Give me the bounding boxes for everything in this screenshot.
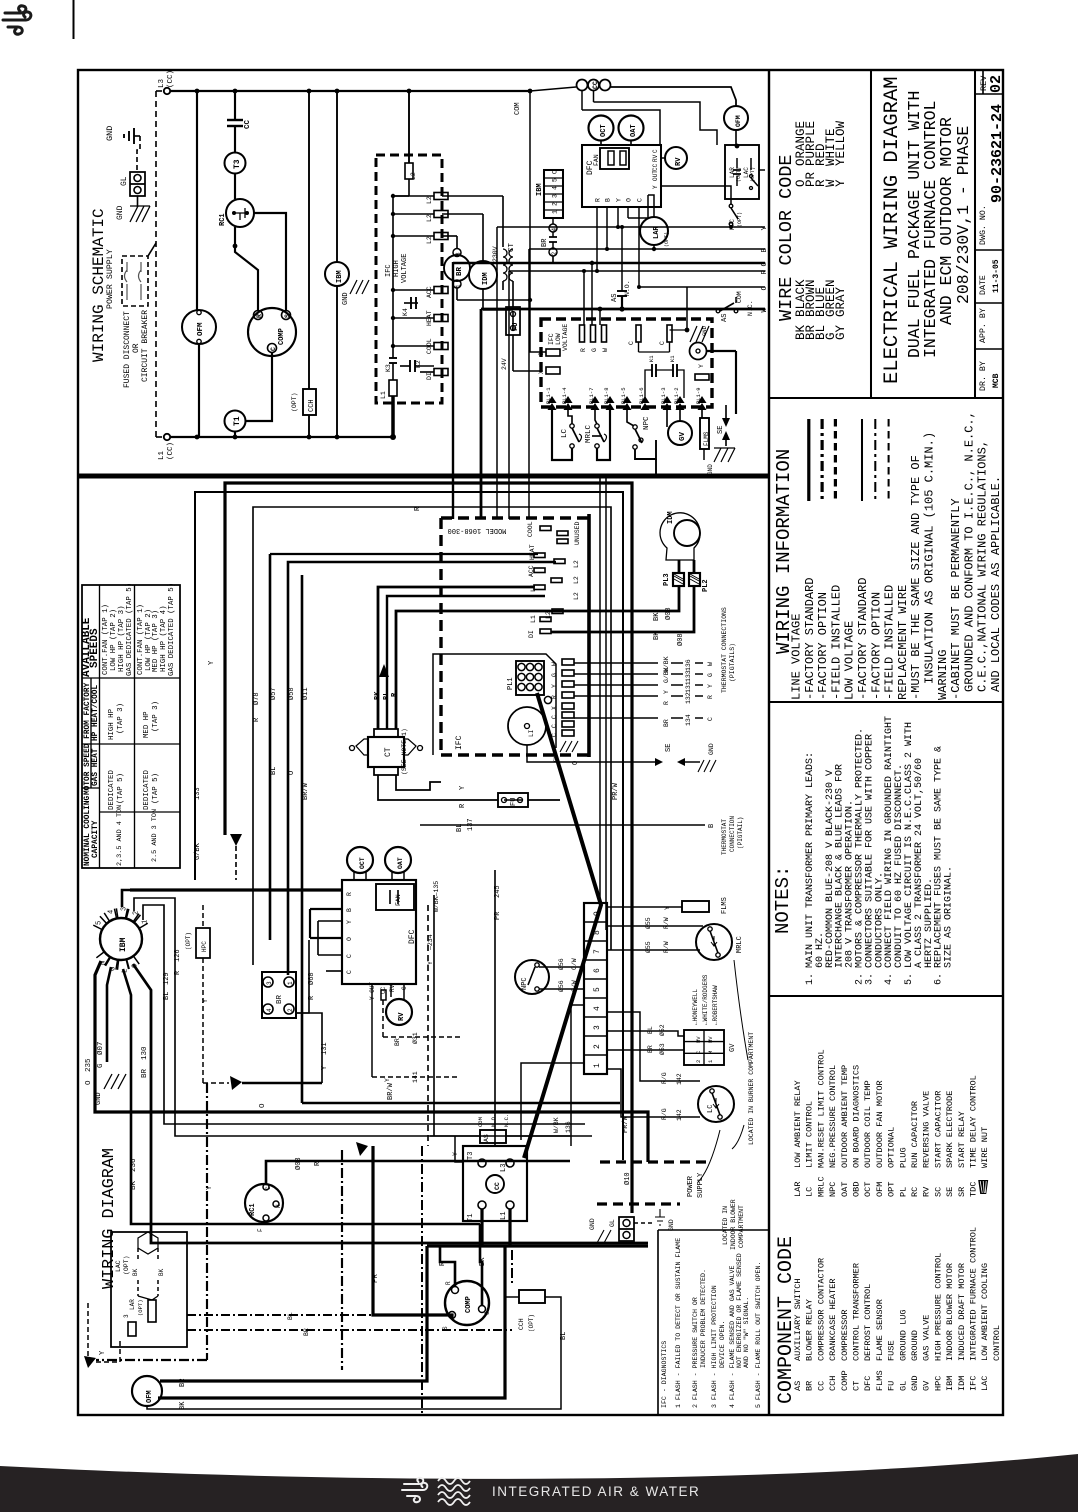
- crankcase heater CCH (diagram): [519, 1290, 545, 1303]
- wire O 058: [288, 562, 556, 975]
- IFC pin L1: [534, 585, 545, 590]
- svg-text:MCB: MCB: [992, 373, 1001, 388]
- svg-text:SPEEDS: SPEEDS: [89, 628, 101, 668]
- IFC HV pin COOL: [434, 343, 448, 350]
- svg-text:BR: BR: [276, 994, 284, 1004]
- svg-text:OFM: OFM: [875, 1182, 885, 1197]
- svg-text:INDUCER PROBLEM DETECTED.: INDUCER PROBLEM DETECTED.: [700, 1269, 707, 1368]
- svg-text:4.: 4.: [884, 973, 895, 985]
- svg-text:DEFROST CONTROL: DEFROST CONTROL: [863, 1284, 873, 1361]
- svg-text:HIGH HP (TAP 4): HIGH HP (TAP 4): [160, 605, 168, 672]
- svg-text:B: B: [761, 248, 769, 253]
- pigtail G/BK-133: [574, 673, 658, 675]
- svg-text:SPARK ELECTRODE: SPARK ELECTRODE: [945, 1091, 955, 1168]
- svg-text:Ø03: Ø03: [294, 1157, 303, 1170]
- svg-text:137: 137: [467, 818, 475, 831]
- svg-text:Ø11: Ø11: [301, 687, 310, 700]
- svg-text:DEDICATED: DEDICATED: [143, 770, 151, 810]
- wire BR/W 011: [301, 575, 304, 1103]
- dash dot low voltage field lines: [206, 1083, 208, 1360]
- wire CC to OFM2: [610, 87, 736, 106]
- svg-text:K4: K4: [402, 308, 409, 316]
- svg-text:C: C: [270, 347, 277, 351]
- svg-text:C: C: [551, 715, 558, 719]
- svg-text:235: 235: [85, 1058, 93, 1072]
- svg-text:(TAP 3): (TAP 3): [152, 701, 160, 732]
- svg-text:Ø08: Ø08: [676, 633, 685, 646]
- svg-text:OUTDOOR COIL TEMP: OUTDOOR COIL TEMP: [863, 1080, 873, 1168]
- IFC pin Y: [562, 681, 574, 687]
- svg-text:(CC): (CC): [167, 442, 175, 460]
- wire dashed gnd to GL: [137, 136, 140, 172]
- svg-text:BK: BK: [479, 1257, 487, 1266]
- svg-text:BL: BL: [560, 1332, 568, 1340]
- svg-text:Y: Y: [616, 198, 623, 202]
- svg-text:2: 2: [133, 911, 141, 915]
- svg-text:MRLC: MRLC: [816, 1176, 826, 1197]
- wire BR 053: [607, 1049, 684, 1051]
- svg-text:LOW AMBIENT COOLING: LOW AMBIENT COOLING: [980, 1263, 990, 1361]
- svg-text:LC: LC: [561, 428, 569, 438]
- svg-text:1: 1: [552, 210, 559, 214]
- svg-text:CCH: CCH: [308, 399, 316, 412]
- svg-text:BR: BR: [303, 1328, 310, 1336]
- svg-text:←ROBERTSHAW: ←ROBERTSHAW: [712, 985, 719, 1025]
- svg-text:BLOWER RELAY: BLOWER RELAY: [805, 1299, 815, 1361]
- svg-text:BK: BK: [653, 612, 661, 621]
- svg-text:CT: CT: [384, 747, 393, 757]
- svg-text:Y: Y: [761, 226, 769, 231]
- svg-text:C: C: [761, 286, 769, 291]
- svg-text:W: W: [602, 348, 609, 352]
- svg-text:C: C: [484, 1311, 491, 1315]
- svg-text:LOW VOLTAGE: LOW VOLTAGE: [843, 621, 857, 700]
- svg-text:SE: SE: [717, 426, 725, 434]
- svg-text:R: R: [346, 892, 353, 896]
- svg-text:UNUSED: UNUSED: [574, 521, 581, 545]
- wire nut: [230, 834, 242, 846]
- induced draft motor IDM (schematic): [442, 213, 483, 215]
- svg-text:SUPPLY: SUPPLY: [697, 1172, 705, 1198]
- wire R/G 142 bottom: [607, 1069, 700, 1117]
- svg-text:Y: Y: [664, 906, 671, 910]
- svg-text:C: C: [695, 1050, 702, 1054]
- IFC pin L2: [552, 609, 563, 614]
- svg-text:GV: GV: [729, 1043, 737, 1052]
- svg-text:IBM: IBM: [119, 937, 128, 952]
- wire BK 236: [123, 969, 480, 1224]
- svg-text:GL: GL: [609, 1219, 616, 1227]
- svg-text:BK: BK: [132, 1268, 139, 1276]
- footer waves icon: [438, 1478, 470, 1505]
- svg-text:2: 2: [552, 202, 559, 206]
- svg-text:O: O: [626, 198, 633, 202]
- svg-text:(TAP 5): (TAP 5): [152, 773, 160, 804]
- wire GL to chassis gnd: [137, 196, 139, 207]
- svg-text:5.: 5.: [904, 973, 915, 985]
- svg-text:5: 5: [96, 921, 104, 925]
- svg-text:C: C: [346, 970, 353, 974]
- svg-text:132: 132: [685, 692, 692, 704]
- svg-text:CAPACITY: CAPACITY: [92, 820, 100, 858]
- svg-text:DI: DI: [528, 630, 535, 638]
- pin X: [546, 367, 560, 374]
- svg-text:GL: GL: [120, 176, 129, 186]
- C riser to gnd dot: [686, 287, 688, 330]
- svg-text:1: 1: [707, 1059, 714, 1063]
- svg-text:THERMOSTAT CONNECTIONS: THERMOSTAT CONNECTIONS: [721, 607, 728, 693]
- aux switch AS (diagram): [480, 1130, 506, 1143]
- title block REV strip: [974, 70, 976, 398]
- svg-text:BK: BK: [158, 1268, 165, 1276]
- svg-text:FU: FU: [510, 798, 518, 806]
- svg-text:(OPT): (OPT): [123, 1255, 130, 1275]
- svg-text:R/G: R/G: [661, 1108, 668, 1120]
- svg-text:COMP: COMP: [465, 1296, 473, 1313]
- DFC pin drops: [596, 207, 598, 271]
- wire R 003: [266, 1161, 570, 1184]
- svg-text:WIRE NUT: WIRE NUT: [980, 1127, 990, 1168]
- svg-text:HIGH HP (TAP 3): HIGH HP (TAP 3): [118, 605, 126, 672]
- svg-text:GY: GY: [834, 324, 848, 340]
- wire G 007 gnd: [107, 967, 111, 1062]
- svg-text:Y: Y: [208, 660, 216, 665]
- svg-text:(TAP 3): (TAP 3): [117, 703, 125, 734]
- svg-text:BK: BK: [374, 691, 382, 700]
- svg-text:INDUCED DRAFT MOTOR: INDUCED DRAFT MOTOR: [957, 1263, 967, 1361]
- svg-text:Ø57: Ø57: [269, 687, 278, 700]
- inducer port circle: [508, 707, 546, 745]
- pins C C: [636, 325, 641, 342]
- svg-text:GND: GND: [708, 743, 715, 755]
- svg-text:T1: T1: [233, 416, 242, 426]
- wire PR to comp: [279, 1204, 373, 1272]
- svg-text:DI: DI: [426, 372, 433, 380]
- svg-text:RV: RV: [675, 157, 683, 166]
- svg-text:90-23621-24: 90-23621-24: [989, 104, 1006, 203]
- crankcase heater CCH: [307, 89, 312, 94]
- svg-text:236: 236: [130, 1158, 138, 1172]
- svg-text:COM: COM: [477, 1117, 484, 1127]
- wire R: [440, 1246, 455, 1287]
- wire BR 130: [133, 964, 648, 1243]
- svg-text:LINE VOLTAGE: LINE VOLTAGE: [790, 614, 804, 700]
- svg-text:FAN: FAN: [593, 154, 600, 166]
- svg-text:HIGH PRESSURE CONTROL: HIGH PRESSURE CONTROL: [933, 1253, 943, 1361]
- outdoor fan motor OFM (diagram): [132, 1376, 162, 1406]
- pigtail BR-134: [574, 717, 658, 719]
- svg-text:FLMS: FLMS: [721, 897, 729, 914]
- svg-text:BL: BL: [163, 992, 171, 1000]
- svg-text:FUSE: FUSE: [887, 1340, 897, 1361]
- IFC pin L2: [554, 559, 565, 564]
- svg-text:Ø10: Ø10: [623, 1172, 632, 1185]
- svg-text:X: X: [538, 370, 545, 374]
- svg-text:START CAPACITOR: START CAPACITOR: [933, 1091, 943, 1168]
- IBM speed tap block: [544, 170, 563, 218]
- svg-text:AS: AS: [721, 314, 729, 322]
- svg-text:MV: MV: [695, 1036, 702, 1043]
- limit control LC (diagram): [698, 1086, 734, 1122]
- svg-text:24V: 24V: [501, 358, 508, 370]
- svg-text:O/W: O/W: [571, 980, 578, 992]
- svg-text:Ø58: Ø58: [287, 687, 296, 700]
- IFC gnd: [560, 741, 578, 752]
- LV pin risers: [583, 271, 585, 325]
- terminal strip 1-9: [584, 903, 607, 1074]
- svg-text:H: H: [275, 1204, 282, 1208]
- svg-text:4: 4: [551, 228, 558, 232]
- svg-text:K1: K1: [648, 355, 655, 362]
- svg-text:GND: GND: [701, 325, 708, 336]
- svg-text:Y: Y: [459, 785, 467, 790]
- svg-text:DEVICE OPEN.: DEVICE OPEN.: [719, 1321, 726, 1368]
- svg-text:(SEE NOTE 1): (SEE NOTE 1): [401, 728, 408, 775]
- svg-text:LOW HP (TAP 2): LOW HP (TAP 2): [110, 609, 118, 671]
- svg-text:CRANKCASE HEATER: CRANKCASE HEATER: [828, 1278, 838, 1361]
- svg-text:PR: PR: [494, 911, 502, 920]
- svg-text:C: C: [552, 170, 559, 174]
- svg-text:1 FLASH - FAILED TO DETECT OR: 1 FLASH - FAILED TO DETECT OR SUSTAIN FL…: [675, 1238, 682, 1408]
- svg-text:K3: K3: [385, 364, 392, 372]
- svg-text:OFM: OFM: [146, 1390, 154, 1403]
- svg-text:126: 126: [174, 949, 182, 962]
- L2 feed from rail: [407, 89, 412, 94]
- svg-text:Y: Y: [427, 961, 434, 965]
- svg-text:W: W: [707, 662, 714, 666]
- svg-text:R: R: [551, 695, 558, 699]
- svg-text:GV: GV: [679, 431, 687, 441]
- control transformer CT (diagram): [368, 737, 404, 767]
- svg-text:COM: COM: [514, 102, 522, 115]
- svg-text:GROUND LUG: GROUND LUG: [898, 1309, 908, 1361]
- wire BR: [160, 1246, 427, 1381]
- indoor blower motor IBM (diagram): [100, 918, 142, 960]
- svg-text:R: R: [707, 695, 714, 699]
- svg-text:DWG. NO.: DWG. NO.: [979, 205, 988, 245]
- svg-text:(CC): (CC): [167, 70, 175, 88]
- svg-text:MODEL 1068-300: MODEL 1068-300: [448, 526, 507, 534]
- svg-text:CT: CT: [852, 1381, 862, 1391]
- wire Y heavy bend: [225, 483, 632, 1213]
- svg-text:3: 3: [593, 1025, 602, 1030]
- IFC pin C: [562, 721, 574, 727]
- svg-text:LAC: LAC: [115, 1260, 122, 1272]
- svg-text:SE: SE: [665, 744, 673, 752]
- svg-text:LC: LC: [805, 1187, 815, 1197]
- svg-text:BL: BL: [383, 692, 391, 700]
- svg-text:L1: L1: [530, 584, 537, 592]
- svg-text:LOCATED IN BURNER COMPARTMENT: LOCATED IN BURNER COMPARTMENT: [748, 1032, 755, 1145]
- svg-text:G: G: [761, 262, 769, 267]
- compressor contactor CC (diagram): [463, 1146, 527, 1221]
- svg-text:R/W: R/W: [663, 917, 670, 929]
- svg-text:Ø55: Ø55: [644, 941, 652, 953]
- run capacitor CC: [233, 89, 238, 94]
- svg-text:2: 2: [551, 252, 558, 256]
- svg-text:N.C.: N.C.: [503, 1114, 510, 1127]
- svg-text:AUXILIARY SWITCH: AUXILIARY SWITCH: [793, 1278, 803, 1361]
- svg-text:5: 5: [593, 987, 602, 992]
- IFC pin COOL: [540, 526, 551, 531]
- svg-text:C: C: [551, 724, 558, 728]
- IFC pin DI: [540, 629, 551, 634]
- svg-text:OBD: OBD: [852, 1182, 862, 1197]
- negative pressure control NPC (diagram): [515, 960, 549, 994]
- svg-text:G: G: [551, 673, 558, 677]
- svg-text:O: O: [288, 771, 296, 775]
- svg-text:BL: BL: [647, 1026, 654, 1034]
- strip cell 1 wire: [521, 1063, 584, 1140]
- svg-text:AS: AS: [793, 1381, 803, 1391]
- svg-text:FLAME SENSOR: FLAME SENSOR: [875, 1299, 885, 1361]
- svg-text:MOTOR SPEED FROM FACTORY: MOTOR SPEED FROM FACTORY: [84, 682, 92, 795]
- wire CC drops: [581, 90, 583, 110]
- svg-text:1: 1: [142, 920, 150, 924]
- svg-text:L1: L1: [158, 450, 166, 460]
- wire thin to CCH: [147, 1297, 561, 1409]
- IFC HV pin L2: [434, 233, 448, 240]
- svg-text:Y: Y: [452, 1152, 459, 1156]
- svg-text:GROUND: GROUND: [910, 1330, 920, 1361]
- svg-text:R: R: [761, 270, 769, 275]
- svg-text:COMPRESSOR: COMPRESSOR: [840, 1309, 850, 1361]
- wire PR: [373, 1146, 452, 1318]
- svg-text:RV: RV: [389, 984, 396, 992]
- svg-text:O: O: [346, 937, 353, 941]
- svg-text:Y: Y: [206, 1185, 214, 1190]
- outdoor fan motor OFM (ecm): [724, 106, 748, 130]
- svg-text:N.C.: N.C.: [747, 300, 754, 316]
- wire R 068: [296, 940, 309, 1013]
- svg-text:GND: GND: [105, 126, 115, 141]
- svg-text:BR: BR: [663, 719, 670, 727]
- node L3 terminal: [164, 88, 170, 94]
- sensors OCT OAT: [347, 847, 373, 873]
- svg-text:IDM: IDM: [667, 511, 675, 524]
- svg-text:Y: Y: [707, 684, 714, 688]
- ground lug GL (diagram): [619, 1217, 634, 1241]
- wire nut on BL: [379, 664, 389, 677]
- svg-text:IBM: IBM: [336, 270, 344, 283]
- svg-text:2: 2: [593, 1044, 602, 1049]
- svg-text:AND NO "W" SIGNAL.: AND NO "W" SIGNAL.: [743, 1297, 750, 1368]
- IFC pin UNUSED: [557, 531, 568, 536]
- svg-text:GND: GND: [707, 464, 714, 475]
- svg-text:L3: L3: [158, 78, 166, 88]
- wire BR 031: [382, 1000, 384, 1037]
- svg-text:RC: RC: [910, 1187, 920, 1197]
- svg-text:(OPT): (OPT): [528, 1314, 535, 1332]
- footer bar: [0, 1454, 1078, 1512]
- wire BR2 to G line: [553, 256, 592, 263]
- flame sensor FLMS: [700, 418, 709, 449]
- IFC pin L1: [540, 617, 551, 622]
- COM wire: [528, 89, 533, 94]
- svg-text:IFC: IFC: [969, 1376, 979, 1391]
- start relay RC1: [226, 199, 254, 227]
- svg-text:L2: L2: [573, 560, 580, 568]
- IFC pin G: [562, 670, 574, 676]
- svg-text:R: R: [580, 348, 587, 352]
- svg-text:POWER SUPPLY: POWER SUPPLY: [106, 249, 115, 309]
- svg-text:LAR: LAR: [729, 167, 736, 178]
- svg-text:BR: BR: [394, 1038, 401, 1046]
- svg-text:R/G: R/G: [661, 1072, 668, 1084]
- svg-text:131: 131: [685, 681, 692, 693]
- svg-text:O: O: [85, 1080, 93, 1085]
- svg-text:GND: GND: [95, 1092, 103, 1105]
- svg-text:PL1: PL1: [507, 677, 515, 690]
- svg-text:(OPT): (OPT): [185, 932, 192, 950]
- svg-text:BR: BR: [647, 1045, 654, 1053]
- wire Y to IFC: [496, 227, 498, 519]
- svg-text:GND: GND: [342, 292, 350, 305]
- svg-text:W: W: [761, 308, 769, 313]
- svg-text:-CABINET MUST BE PERMANENTLY: -CABINET MUST BE PERMANENTLY: [949, 498, 963, 700]
- svg-text:-FACTORY OPTION: -FACTORY OPTION: [869, 592, 883, 700]
- IFC HV pin ACC: [434, 287, 448, 294]
- svg-text:3.: 3.: [864, 973, 875, 985]
- wire W/BK 135: [433, 895, 435, 1136]
- svg-text:T3: T3: [233, 159, 242, 169]
- svg-text:130: 130: [141, 1046, 149, 1060]
- IFC pin R: [562, 692, 574, 698]
- dfc r wire: [253, 940, 268, 977]
- svg-text:C: C: [265, 1186, 272, 1190]
- svg-text:RUN CAPACITOR: RUN CAPACITOR: [910, 1101, 920, 1168]
- svg-text:T3: T3: [467, 1152, 475, 1160]
- svg-text:(TAP 5): (TAP 5): [117, 773, 125, 804]
- wires into DFC left: [130, 888, 342, 891]
- chassis ground symbol: [130, 206, 150, 222]
- svg-text:1: 1: [593, 1063, 602, 1068]
- fuse FU (diagram): [498, 793, 528, 807]
- IFC pin X: [562, 703, 574, 709]
- svg-text:2 FLASH - PRESSURE SWITCH OR: 2 FLASH - PRESSURE SWITCH OR: [692, 1297, 699, 1408]
- svg-text:O: O: [572, 761, 580, 765]
- svg-text:IFC: IFC: [385, 264, 393, 277]
- svg-text:G: G: [591, 348, 598, 352]
- svg-text:CC: CC: [592, 81, 599, 89]
- svg-text:N.O.: N.O.: [624, 280, 631, 296]
- svg-text:AND LOCAL CODES AS APPLICABLE.: AND LOCAL CODES AS APPLICABLE.: [989, 476, 1003, 692]
- wire BL 052: [607, 1031, 684, 1036]
- defrost control DFC (diagram): [342, 880, 416, 984]
- fan inner box: [376, 884, 414, 910]
- svg-text:(OPT): (OPT): [137, 1299, 144, 1316]
- svg-text:K2: K2: [415, 360, 422, 368]
- svg-text:1: 1: [287, 981, 294, 985]
- wire BL 137 thermostat B: [420, 824, 705, 826]
- wire G to IFC: [452, 262, 454, 519]
- svg-text:R/W: R/W: [663, 941, 670, 953]
- svg-text:MED HP (TAP 3): MED HP (TAP 3): [152, 610, 160, 672]
- svg-text:CC: CC: [244, 119, 252, 129]
- svg-text:Ø08: Ø08: [664, 607, 673, 620]
- power supply field wiring: [600, 1160, 707, 1163]
- IFC high voltage board: [376, 155, 442, 403]
- title block divider: [870, 70, 872, 398]
- svg-text:NOTES:: NOTES:: [772, 866, 794, 934]
- svg-text:REPLACEMENT WIRE: REPLACEMENT WIRE: [896, 585, 910, 700]
- svg-text:COMP: COMP: [278, 328, 286, 345]
- wire R to IFC: [508, 271, 510, 519]
- svg-text:IFC: IFC: [548, 333, 555, 345]
- wire PR 245: [494, 870, 496, 1146]
- svg-text:Y: Y: [99, 1350, 107, 1355]
- blower relay BR (diagram): [262, 972, 296, 1018]
